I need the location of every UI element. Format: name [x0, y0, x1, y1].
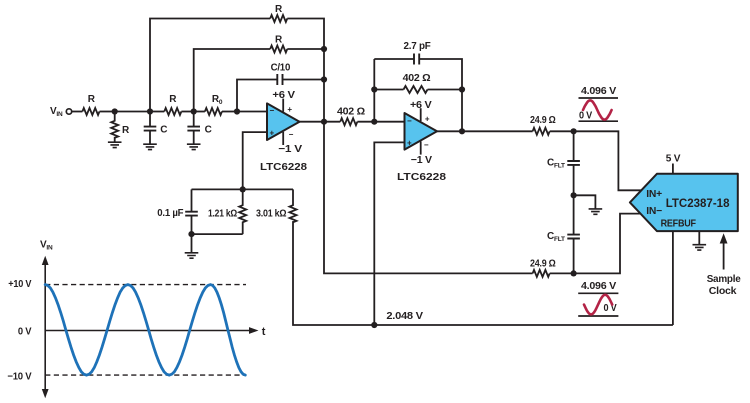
node VIN input terminal [50, 106, 72, 118]
svg-text:REFBUF: REFBUF [661, 218, 696, 229]
svg-text:5 V: 5 V [666, 154, 681, 165]
svg-text:R: R [88, 94, 96, 105]
node B junction [147, 108, 153, 114]
svg-text:C: C [205, 124, 212, 135]
wire R11 down to 2.048V bus [293, 221, 673, 325]
node O junction U1 plus node [240, 186, 246, 192]
resistor R7 402 ohm feedback [403, 73, 431, 93]
wire feedback 2 from node C up and right [194, 49, 271, 112]
svg-text:Sample: Sample [707, 274, 741, 285]
wire VIN to R1 [72, 111, 83, 113]
wire R5 to vertical bus [287, 48, 324, 50]
svg-text:0 V: 0 V [604, 303, 618, 314]
node G junction U1 output [321, 119, 327, 125]
svg-text:4.096 V: 4.096 V [581, 86, 617, 97]
svg-text:t: t [262, 326, 266, 338]
svg-text:IN+: IN+ [646, 189, 662, 200]
wire node C to R0 [194, 111, 205, 113]
wire R1 to node A [100, 111, 115, 113]
resistor R1 [82, 94, 99, 115]
wire feedback top from node B up and right [150, 19, 270, 112]
svg-text:IN−: IN− [646, 206, 662, 217]
svg-text:+: + [407, 139, 412, 148]
svg-text:402 Ω: 402 Ω [403, 73, 431, 84]
resistor R6 402 ohm [337, 107, 365, 126]
wire node L to ADC IN+ [574, 131, 643, 190]
power 5V pin [666, 154, 681, 174]
node E junction feedback bus at R5 [321, 46, 327, 52]
capacitor C1 [144, 112, 168, 136]
VIN waveform graph [7, 240, 265, 399]
ground under C1 [143, 132, 157, 150]
svg-text:0.1 µF: 0.1 µF [157, 208, 183, 219]
svg-text:0 V: 0 V [18, 327, 32, 338]
resistor R2 shunt [111, 112, 130, 138]
svg-text:+10 V: +10 V [8, 279, 32, 290]
svg-text:C: C [160, 124, 167, 135]
ground under R2 [108, 137, 122, 148]
ground at CFLT mid [574, 195, 603, 214]
svg-text:R: R [275, 4, 283, 15]
capacitor C/10 feedback [271, 63, 291, 86]
resistor R4 top feedback [270, 4, 287, 22]
graph +10V dashed line [45, 284, 246, 286]
node D junction [234, 108, 240, 114]
node A junction [112, 108, 118, 114]
svg-text:C/10: C/10 [271, 63, 291, 74]
wire R9 to node N [550, 272, 574, 274]
ground under C2 [187, 132, 201, 150]
wire feedback 402 left segment [374, 89, 403, 91]
svg-text:402 Ω: 402 Ω [337, 107, 365, 118]
ADC U3 LTC2387-18 [630, 174, 738, 231]
waveform icon lower 4.096V [578, 281, 618, 316]
svg-text:2.7 pF: 2.7 pF [404, 41, 431, 52]
svg-text:−: − [407, 116, 412, 125]
wire node A to node B [115, 111, 150, 113]
wire feedback right vertical to U2 output [461, 90, 463, 132]
ground at ADC [693, 231, 707, 250]
sample clock arrow [707, 233, 741, 297]
svg-text:−: − [270, 106, 275, 115]
resistor R10 1.21k [208, 189, 246, 234]
svg-text:3.01 kΩ: 3.01 kΩ [256, 208, 286, 219]
resistor R9 24.9 ohm lower [530, 258, 556, 277]
capacitor C4 CFLT upper [547, 131, 580, 195]
wire op-amp U2 noninverting input down to 2.048V bus [374, 142, 404, 325]
node Q junction bus at U2 plus [371, 322, 377, 328]
wire C10 to vertical bus [283, 79, 325, 81]
capacitor C2 [187, 112, 211, 136]
svg-text:1.21 kΩ: 1.21 kΩ [208, 208, 237, 219]
node K junction U2 output [459, 128, 465, 134]
capacitor C5 CFLT lower [547, 195, 580, 273]
wire vertical bus F to op-amp U1 output node [323, 80, 325, 122]
wire R4 to vertical bus [287, 19, 324, 50]
wire R0 to node D [222, 111, 237, 113]
wire capacitor C3 feedback top left segment [374, 58, 414, 60]
svg-text:R: R [169, 94, 177, 105]
svg-text:−10 V: −10 V [7, 371, 32, 382]
wire U2 feedback left vertical [373, 59, 375, 122]
wire op-amp U1 output to node G [300, 121, 325, 123]
wire U1 output down the left vertical to lower branch [324, 122, 533, 274]
wire R6 to op-amp U2 inverting input [357, 121, 404, 123]
node L junction CFLT top [571, 128, 577, 134]
op-amp U2 LTC6228 [397, 100, 446, 183]
node C junction [191, 108, 197, 114]
capacitor C3 2.7pF [404, 41, 431, 65]
wire R3 to node C [181, 111, 193, 113]
wire op-amp U2 output to node K [437, 130, 462, 132]
svg-text:−1 V: −1 V [411, 155, 433, 166]
wire node N to ADC IN- [574, 214, 643, 274]
resistor R3 [164, 94, 181, 115]
wire feedback 402 right segment [428, 89, 463, 91]
wire op-amp U1 noninverting input [243, 132, 267, 189]
node F junction feedback bus at C10 [321, 76, 327, 82]
svg-text:24.9 Ω: 24.9 Ω [530, 258, 556, 269]
svg-text:LTC6228: LTC6228 [397, 171, 446, 183]
svg-text:−: − [289, 130, 294, 139]
resistor R11 3.01k [256, 189, 297, 222]
svg-text:R: R [275, 35, 283, 46]
wire node D to op-amp U1 inverting input [237, 111, 267, 113]
graph -10V dashed line [45, 374, 246, 376]
node M junction CFLT mid [571, 192, 577, 198]
svg-text:LTC2387-18: LTC2387-18 [666, 198, 730, 210]
resistor R8 24.9 ohm [530, 115, 556, 135]
svg-text:LTC6228: LTC6228 [260, 161, 307, 173]
capacitor C6 0.1uF [157, 189, 198, 234]
svg-text:0 V: 0 V [579, 110, 593, 121]
wire C10 feedback from node D up [237, 80, 277, 112]
resistor R0 [205, 94, 223, 115]
wire node B to R3 [150, 111, 164, 113]
wire node K to R8 [462, 130, 533, 132]
svg-text:4.096 V: 4.096 V [581, 281, 617, 292]
wire REFBUF pin down to bus [672, 231, 674, 325]
wire node G to R6 [324, 121, 340, 123]
node P junction 0.1uF bottom [188, 231, 194, 237]
svg-text:−1 V: −1 V [278, 144, 302, 155]
resistor R5 second feedback [270, 35, 287, 53]
svg-text:−: − [424, 140, 429, 149]
wire divider bottom rail [192, 233, 243, 235]
svg-text:+: + [287, 105, 292, 114]
op-amp U1 LTC6228 [260, 90, 307, 173]
wire C3 to right vertical [419, 59, 462, 90]
wire R8 to node L [550, 130, 574, 132]
wire vertical bus E to F [323, 49, 325, 80]
wire divider top rail [192, 188, 294, 190]
svg-text:24.9 Ω: 24.9 Ω [530, 115, 556, 126]
svg-text:Clock: Clock [709, 286, 737, 297]
svg-text:+: + [270, 129, 275, 138]
svg-text:R: R [122, 125, 130, 136]
svg-text:+6 V: +6 V [410, 100, 432, 111]
node I junction feedback left at 402 [371, 86, 377, 92]
graph horizontal axis [45, 330, 250, 332]
node H junction U2 inverting input [371, 119, 377, 125]
svg-text:+6 V: +6 V [272, 90, 295, 101]
svg-text:+: + [425, 114, 430, 123]
node J junction feedback right at 402 [459, 86, 465, 92]
svg-text:2.048 V: 2.048 V [386, 311, 423, 322]
waveform icon upper 4.096V [579, 86, 619, 122]
ground under node P [185, 234, 199, 258]
node N junction CFLT bottom [571, 270, 577, 276]
graph blue sine curve [45, 285, 245, 376]
graph vertical axis [44, 263, 46, 391]
